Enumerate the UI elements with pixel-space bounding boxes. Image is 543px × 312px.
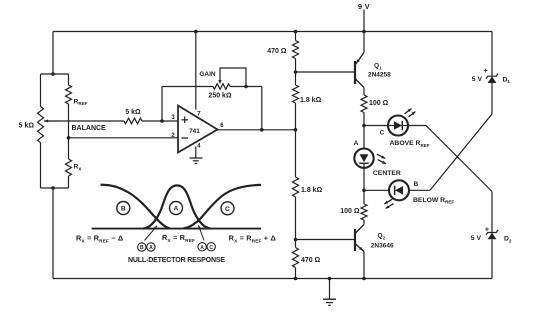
svg-text:1.8 kΩ: 1.8 kΩ [300,97,322,104]
svg-text:250 kΩ: 250 kΩ [208,93,232,100]
svg-text:CENTER: CENTER [373,170,401,177]
svg-text:A: A [200,245,204,251]
svg-text:C: C [225,206,230,213]
svg-text:A: A [354,140,359,147]
svg-text:A: A [174,206,179,213]
svg-text:B: B [414,181,419,188]
svg-text:NULL-DETECTOR RESPONSE: NULL-DETECTOR RESPONSE [128,257,225,264]
svg-text:470 Ω: 470 Ω [267,48,287,55]
svg-text:100 Ω: 100 Ω [340,208,360,215]
svg-text:+: + [485,225,490,234]
svg-text:5 kΩ: 5 kΩ [125,109,141,116]
svg-text:B: B [140,245,144,251]
svg-text:A: A [149,245,153,251]
svg-text:5 V: 5 V [472,76,483,83]
svg-text:5 kΩ: 5 kΩ [19,123,35,130]
svg-text:BALANCE: BALANCE [72,125,107,132]
svg-text:+: + [483,66,488,75]
svg-text:B: B [121,206,126,213]
svg-text:470 Ω: 470 Ω [301,257,321,264]
svg-text:5 V: 5 V [471,235,482,242]
svg-text:2N3646: 2N3646 [371,243,394,250]
svg-text:9 V: 9 V [358,2,370,11]
svg-text:1.8 kΩ: 1.8 kΩ [301,187,323,194]
svg-text:100 Ω: 100 Ω [369,100,389,107]
svg-text:2N4258: 2N4258 [368,72,391,79]
svg-text:741: 741 [189,128,200,135]
svg-text:C: C [209,245,213,251]
svg-text:C: C [380,130,385,137]
svg-text:GAIN: GAIN [199,71,216,78]
